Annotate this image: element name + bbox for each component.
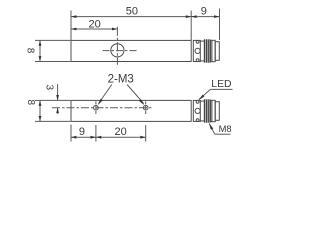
- label LED underline: [211, 88, 233, 90]
- sensing face circle: [111, 44, 124, 57]
- dim 8 top-view down arrow: [39, 56, 42, 61]
- bottom thread runout bottom line: [200, 120, 204, 122]
- holes horizontal centerline: [52, 107, 154, 109]
- svg-text:8: 8: [25, 48, 36, 54]
- svg-text:9: 9: [79, 126, 85, 138]
- top collar center hole: [195, 48, 200, 53]
- top view connector ring: [211, 40, 216, 61]
- svg-text:M8: M8: [219, 123, 232, 134]
- bottom dims left extension line: [70, 125, 72, 142]
- dim 50 line: [71, 16, 191, 18]
- dim 9 bottom left arrow: [71, 136, 76, 139]
- dim 8 bottom-view lower extension line: [35, 120, 70, 122]
- bottom view connector ring: [211, 100, 216, 121]
- mounting hole 2: [143, 105, 148, 110]
- dim 9 bottom right arrow: [91, 136, 96, 139]
- label M8 leader arrow: [209, 123, 213, 130]
- bottom view connector end cap: [215, 102, 219, 121]
- label LED leader arrow: [198, 95, 204, 101]
- bottom collar lower LED circle: [196, 119, 199, 122]
- top collar upper LED circle: [196, 41, 199, 44]
- dim 20 right arrow: [112, 28, 117, 31]
- bottom view connector collar: [193, 100, 200, 121]
- circle horizontal centerline: [103, 50, 137, 52]
- dim 8 top-view upper extension line: [35, 39, 70, 41]
- dim 20 line (bottom view): [96, 136, 146, 138]
- dim 20 line (top view): [71, 28, 117, 30]
- mounting hole 1: [94, 105, 99, 110]
- bottom thread runout top line: [200, 100, 204, 102]
- dim 3 upper arrow stem: [57, 84, 59, 100]
- dim 20 bottom right arrow: [140, 136, 145, 139]
- bottom collar center hole: [195, 108, 200, 113]
- dim 9 right arrow: [214, 15, 219, 18]
- dim 50 left arrow: [71, 15, 76, 18]
- top view M8 thread block: [205, 39, 210, 62]
- label LED leader: [199, 89, 211, 99]
- top view connector collar: [193, 40, 200, 61]
- svg-text:9: 9: [201, 6, 207, 18]
- dim 8 top-view up arrow: [39, 40, 42, 45]
- dim 50 right arrow: [186, 15, 191, 18]
- dim 8 bottom-view upper extension line: [35, 99, 70, 101]
- dim 9 line: [191, 16, 219, 18]
- bottom ring inner edge: [211, 100, 213, 121]
- label 2-M3 right leader: [127, 85, 144, 104]
- dim 8 bottom-view up arrow: [39, 100, 42, 105]
- circle vertical centerline: [116, 27, 118, 65]
- label 2-M3 right leader arrow: [139, 99, 144, 105]
- dim 9 line (bottom view): [71, 136, 96, 138]
- bottom view body outline: [71, 100, 191, 121]
- dim 9 right extension line: [219, 9, 221, 41]
- top thread runout bottom line: [200, 60, 204, 62]
- dim 8 top-view lower extension line: [35, 61, 70, 63]
- dim 50/9 middle extension line: [190, 11, 192, 41]
- dim 20 bottom left arrow: [96, 136, 101, 139]
- dim 8 bottom-view line: [39, 100, 41, 121]
- dim 8 bottom-view down arrow: [39, 116, 42, 121]
- dim 8 top-view line: [39, 40, 41, 61]
- svg-text:LED: LED: [211, 79, 231, 90]
- svg-text:3: 3: [43, 85, 54, 91]
- label M8 underline: [215, 133, 231, 135]
- dim 3 upper arrow (points down): [56, 95, 59, 100]
- bottom view M8 thread block: [205, 99, 210, 122]
- bottom dims middle extension line (under hole 1): [95, 125, 97, 142]
- svg-text:8: 8: [25, 100, 36, 106]
- label M8 leader: [209, 124, 215, 135]
- bottom dims right extension line (under hole 2): [145, 125, 147, 142]
- dim 3 lower arrow stem: [57, 108, 59, 114]
- dim 3 lower arrow (points up): [56, 108, 59, 113]
- svg-text:20: 20: [114, 126, 126, 138]
- top thread runout top line: [200, 40, 204, 42]
- hole 1 vertical centerline: [95, 101, 97, 114]
- label 2-M3 left leader: [99, 85, 112, 104]
- bottom collar upper LED circle: [196, 101, 199, 104]
- svg-text:50: 50: [126, 6, 138, 18]
- label 2-M3 left leader arrow: [98, 99, 103, 106]
- svg-text:2-M3: 2-M3: [108, 73, 134, 85]
- hole 2 vertical centerline: [145, 101, 147, 114]
- top collar lower LED circle: [196, 59, 199, 62]
- svg-text:20: 20: [88, 18, 100, 30]
- dim 50 left extension line: [70, 11, 72, 41]
- top ring inner edge: [211, 40, 213, 61]
- top view connector end cap: [215, 42, 219, 61]
- dim 20 left arrow: [71, 28, 76, 31]
- dim 9 left arrow: [191, 15, 196, 18]
- top view body outline: [71, 40, 191, 61]
